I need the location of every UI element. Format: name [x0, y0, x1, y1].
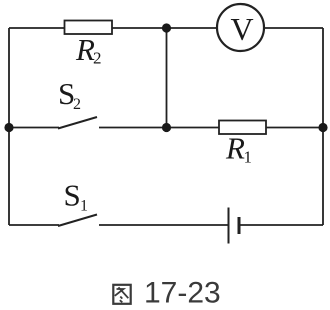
svg-text:V: V: [230, 11, 253, 47]
svg-text:17-23: 17-23: [144, 277, 221, 310]
svg-text:2: 2: [93, 49, 102, 68]
svg-text:1: 1: [244, 148, 253, 167]
svg-text:1: 1: [80, 198, 88, 215]
svg-text:R: R: [75, 32, 95, 67]
svg-text:S: S: [64, 178, 81, 213]
svg-text:2: 2: [73, 96, 81, 113]
svg-text:R: R: [225, 131, 245, 166]
